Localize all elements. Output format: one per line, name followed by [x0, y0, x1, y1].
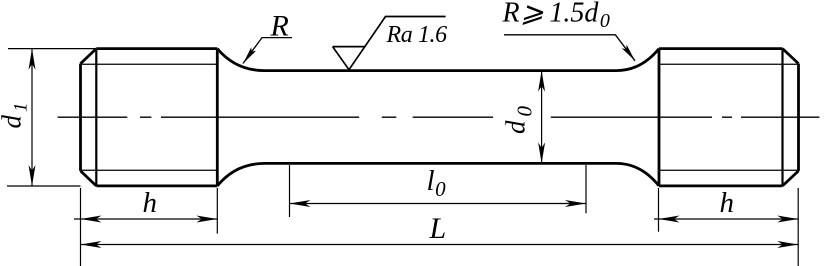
fillet top-right — [617, 49, 660, 71]
svg-text:Ra 1.6: Ra 1.6 — [386, 22, 448, 48]
surface finish symbol — [333, 17, 446, 70]
left grip head outline — [81, 49, 218, 186]
leader for R>=1.5d0 — [504, 35, 635, 61]
fillet bottom-right — [617, 163, 660, 186]
svg-text:h: h — [143, 187, 158, 219]
dimension d0 arrows — [538, 71, 545, 164]
svg-text:d0: d0 — [501, 106, 537, 135]
gauge section bottom edge — [265, 162, 617, 165]
leader R arrowhead — [243, 47, 256, 63]
gauge section top edge — [265, 69, 617, 72]
left grip thread thin line bottom — [81, 169, 217, 171]
right grip chamfer vertical — [781, 49, 783, 186]
dimension l0 extension lines — [290, 165, 587, 217]
dimension h left line — [74, 218, 217, 220]
svg-text:d1: d1 — [0, 103, 32, 129]
dimension h right line — [654, 218, 798, 220]
leader for R — [243, 38, 292, 64]
dimension h left extension lines — [81, 188, 218, 266]
left grip chamfer vertical — [95, 49, 97, 186]
right grip thread thin line top — [659, 63, 799, 65]
dimension h left arrows — [81, 216, 218, 223]
dimension h right arrows — [659, 216, 799, 223]
svg-text:L: L — [429, 212, 447, 245]
svg-text:l0: l0 — [427, 165, 447, 201]
dimension h right extension lines — [659, 188, 799, 266]
dimension L line — [81, 244, 799, 246]
dimension L arrows — [81, 241, 799, 248]
dimension l0 line — [290, 203, 587, 205]
dimension d1 extension lines — [7, 49, 96, 186]
svg-text:R⩾1.5d0: R⩾1.5d0 — [502, 0, 610, 32]
right grip head outline — [659, 49, 799, 186]
dimension d1 arrows — [29, 49, 36, 186]
right grip thread thin line bottom — [659, 169, 799, 171]
leader R>=1.5d0 arrowhead — [622, 45, 635, 61]
centerline — [58, 116, 820, 118]
svg-text:R: R — [270, 10, 289, 43]
dimension d0 line — [541, 71, 543, 164]
svg-text:h: h — [720, 187, 735, 219]
left grip thread thin line top — [81, 63, 217, 65]
fillet top-left — [217, 49, 264, 71]
dimension d1 line — [31, 49, 33, 186]
fillet bottom-left — [217, 163, 264, 186]
dimension l0 arrows — [290, 200, 587, 207]
